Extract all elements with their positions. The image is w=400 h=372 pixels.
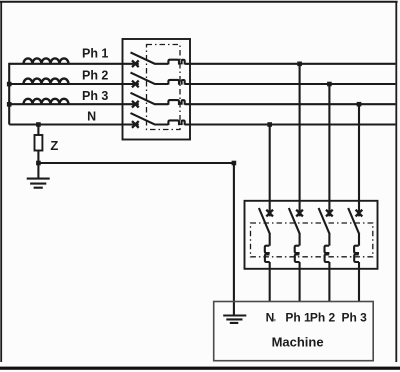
svg-text:Z: Z xyxy=(50,138,58,153)
svg-text:N: N xyxy=(87,110,96,124)
svg-text:Ph 2: Ph 2 xyxy=(310,311,336,325)
svg-text:Ph 2: Ph 2 xyxy=(82,69,108,83)
svg-text:N: N xyxy=(266,311,275,325)
svg-text:Ph 3: Ph 3 xyxy=(342,311,368,325)
svg-text:Ph 1: Ph 1 xyxy=(285,311,311,325)
svg-text:Ph 1: Ph 1 xyxy=(82,47,108,61)
svg-text:Ph 3: Ph 3 xyxy=(82,89,108,103)
svg-text:Machine: Machine xyxy=(272,335,324,350)
